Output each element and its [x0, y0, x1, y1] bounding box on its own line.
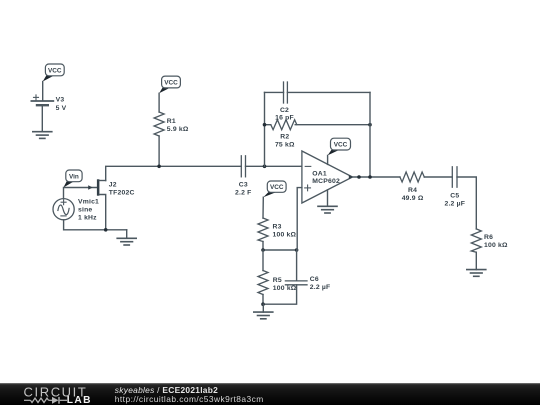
label C6: [310, 276, 331, 291]
wire gate node: [64, 188, 97, 199]
svg-text:R1: R1: [167, 118, 176, 125]
vcc flag (R1): [159, 76, 180, 93]
junction dot feedback left: [263, 165, 267, 169]
wire R5 bottom: [262, 295, 264, 305]
ground (OA1): [318, 206, 337, 213]
resistor R2: [271, 120, 297, 130]
wire C5 to R6 corner: [457, 177, 476, 229]
battery V3: [31, 95, 53, 105]
wire R3 top: [262, 197, 264, 218]
wire V3 bottom: [41, 105, 43, 132]
label V3: [56, 97, 67, 112]
wire R6 bottom: [475, 252, 477, 269]
wire R3/R5 junction: [263, 249, 297, 251]
label R6: [484, 234, 508, 249]
footer logo wire/resistor/diode: [24, 397, 67, 404]
wire main node (J2 drain to C3): [106, 166, 242, 180]
capacitor C2: [284, 82, 288, 103]
ground (R5): [254, 312, 273, 319]
svg-text:C5: C5: [450, 193, 459, 200]
junction dot R2 left: [263, 123, 267, 127]
resistor R4: [400, 172, 424, 182]
svg-text:2.2 µF: 2.2 µF: [310, 284, 331, 291]
capacitor C5: [452, 167, 457, 187]
label J2: [109, 182, 135, 197]
svg-text:100 kΩ: 100 kΩ: [484, 242, 508, 249]
op-amp plus input symbol: [305, 185, 311, 191]
svg-text:VCC: VCC: [48, 67, 62, 74]
JFET J2 source lead: [99, 195, 105, 230]
wire R3 bottom: [262, 242, 264, 251]
svg-text:49.9 Ω: 49.9 Ω: [402, 195, 424, 202]
op-amp output pin arrow: [349, 175, 354, 179]
label R4: [402, 187, 424, 202]
svg-text:75 kΩ: 75 kΩ: [275, 142, 295, 149]
wire C3 to inverting input: [246, 165, 302, 167]
label OA1: [312, 170, 340, 185]
wire to J2 ground: [126, 230, 128, 239]
wire V3 top: [42, 82, 44, 101]
wire C6 bottom: [263, 285, 297, 304]
wire op-amp gnd pin: [327, 190, 329, 206]
source Vmic1: [53, 199, 74, 220]
svg-text:100 kΩ: 100 kΩ: [273, 231, 297, 238]
wire R2 left lead: [265, 124, 271, 126]
wire R5 top: [262, 250, 264, 271]
ground (V3): [33, 132, 52, 139]
svg-text:R4: R4: [408, 187, 417, 194]
svg-text:16 pF: 16 pF: [275, 115, 294, 122]
svg-text:R2: R2: [280, 134, 289, 141]
svg-text:LAB: LAB: [67, 395, 92, 405]
capacitor C3: [241, 156, 245, 177]
wire feedback left rail: [264, 92, 266, 166]
wire op-amp vcc pin: [327, 155, 329, 164]
svg-text:J2: J2: [109, 182, 117, 189]
wire feedback top left: [265, 91, 284, 93]
label C3: [235, 182, 252, 197]
svg-text:V3: V3: [56, 97, 65, 104]
wire Vmic1 bottom: [64, 220, 127, 230]
wire feedback right rail: [369, 92, 371, 177]
svg-text:R3: R3: [273, 224, 282, 231]
svg-text:R6: R6: [484, 234, 493, 241]
label R5: [273, 277, 297, 292]
svg-text:VCC: VCC: [164, 80, 178, 87]
svg-text:C3: C3: [239, 182, 248, 189]
vin flag: [63, 170, 82, 188]
op-amp minus input symbol: [305, 165, 311, 167]
svg-text:5.9 kΩ: 5.9 kΩ: [167, 126, 189, 133]
svg-text:C6: C6: [310, 276, 319, 283]
svg-text:2.2 F: 2.2 F: [235, 189, 252, 196]
wire plus input rail: [297, 188, 302, 250]
junction dot plus rail: [295, 248, 299, 252]
wire to R5 ground: [262, 304, 264, 312]
resistor R3: [258, 218, 268, 242]
svg-text:R5: R5: [273, 277, 282, 284]
label R1: [167, 118, 189, 133]
junction dot J2 source: [104, 228, 108, 232]
svg-text:Vin: Vin: [69, 173, 79, 180]
wire plus rail to C6: [296, 250, 298, 281]
label R3: [273, 224, 297, 239]
label Vmic1: [78, 199, 99, 222]
wire op-amp output: [353, 176, 400, 178]
junction dot R2 right: [368, 123, 372, 127]
vcc flag (R3): [263, 181, 286, 197]
svg-text:http://circuitlab.com/c53wk9rt: http://circuitlab.com/c53wk9rt8a3cm: [115, 394, 264, 404]
JFET J2 channel bar: [97, 179, 100, 195]
resistor R6: [471, 229, 481, 252]
svg-text:MCP602: MCP602: [312, 178, 340, 185]
label C2: [275, 107, 294, 122]
JFET J2 gate arrow: [88, 185, 93, 189]
svg-text:OA1: OA1: [312, 170, 327, 177]
svg-text:1 kHz: 1 kHz: [78, 215, 97, 222]
wire R1 top: [158, 93, 160, 112]
svg-text:TF202C: TF202C: [109, 190, 135, 197]
capacitor C6: [285, 281, 307, 285]
junction dot R1/main: [157, 165, 161, 169]
resistor R5: [258, 271, 268, 295]
svg-text:VCC: VCC: [270, 184, 284, 191]
ground (J2 source): [117, 238, 136, 245]
svg-text:sine: sine: [78, 207, 92, 214]
op-amp U1 triangle: [302, 151, 353, 203]
wire feedback top right: [287, 91, 370, 93]
label R2: [275, 134, 295, 149]
svg-text:100 kΩ: 100 kΩ: [273, 285, 297, 292]
junction dot R5 bottom: [261, 302, 265, 306]
label C5: [444, 193, 465, 208]
wire R2 right lead: [295, 124, 370, 126]
wire R1 bottom: [158, 136, 160, 166]
vcc flag (V3): [43, 64, 64, 82]
junction dot output/feedback: [368, 175, 372, 179]
svg-text:VCC: VCC: [334, 142, 348, 149]
wire R4 to C5: [424, 176, 452, 178]
footer bar: [0, 383, 540, 405]
junction dot output: [357, 175, 361, 179]
junction dot R3 bottom: [261, 248, 265, 252]
svg-text:2.2 µF: 2.2 µF: [444, 200, 465, 207]
ground (R6): [467, 270, 486, 277]
vcc flag (OA1): [328, 138, 351, 155]
svg-text:Vmic1: Vmic1: [78, 199, 99, 206]
svg-text:5 V: 5 V: [56, 105, 67, 112]
JFET J2 drain lead: [99, 180, 105, 182]
svg-text:C2: C2: [280, 107, 289, 114]
resistor R1: [154, 112, 164, 136]
